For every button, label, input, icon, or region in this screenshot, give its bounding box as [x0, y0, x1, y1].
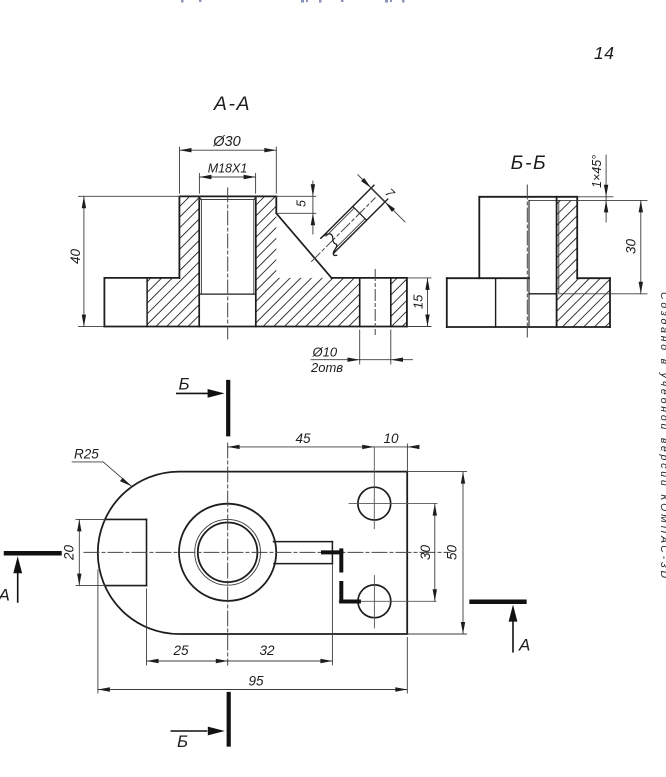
- hatch right wall + base to hole: [256, 196, 360, 326]
- svg-text:95: 95: [248, 674, 264, 689]
- small hole wall left: [359, 278, 361, 327]
- top hole horizontal centerline: [349, 503, 437, 505]
- dimension 1x45: [577, 155, 613, 222]
- dimension 40: [68, 196, 179, 326]
- hatch left wall + base left of hole: [147, 196, 199, 326]
- thread hole circle: [198, 523, 258, 583]
- pin lower side line: [334, 199, 388, 253]
- thread end line: [529, 293, 557, 295]
- dimension 7 line: [358, 175, 405, 222]
- pin break squiggle: [319, 231, 344, 256]
- svg-text:Создано в учебной версии КОМПА: Создано в учебной версии КОМПАС-3D: [658, 292, 666, 581]
- section arrow A left: [0, 553, 60, 604]
- hatch base right of hole: [391, 278, 407, 327]
- dimension 20 left: [62, 519, 107, 585]
- svg-text:25: 25: [172, 643, 189, 658]
- svg-text:50: 50: [445, 545, 460, 561]
- cutting plane A thick jog segment 3: [339, 583, 343, 602]
- thread end line: [199, 293, 256, 295]
- notch boundary line: [146, 278, 148, 327]
- svg-text:5: 5: [295, 200, 309, 207]
- svg-text:Ø10: Ø10: [312, 344, 338, 359]
- svg-text:30: 30: [624, 239, 639, 255]
- boss outer circle: [179, 504, 276, 601]
- hatch boss wall strip: [557, 200, 578, 327]
- svg-text:20: 20: [62, 545, 77, 562]
- section arrow B upper: [177, 374, 228, 434]
- center axis: [526, 185, 528, 337]
- svg-text:А-А: А-А: [213, 93, 251, 115]
- svg-text:2отв: 2отв: [310, 360, 343, 375]
- dimension 45 and 10: [228, 431, 420, 472]
- notch visible edge: [495, 278, 497, 327]
- dimension 30: [560, 200, 647, 293]
- hole right wall: [556, 197, 558, 327]
- base left edge: [446, 278, 448, 327]
- thread minor line right: [253, 200, 255, 295]
- thread minor line left: [200, 200, 202, 295]
- notch top edge: [105, 518, 147, 520]
- cutting plane A thick jog segment 4: [341, 600, 359, 604]
- chamfer line: [529, 199, 577, 201]
- svg-text:10: 10: [383, 431, 399, 446]
- base top right segment: [577, 277, 610, 279]
- boss vertical centerline: [227, 443, 229, 665]
- svg-text:М18Х1: М18Х1: [208, 162, 248, 176]
- svg-text:40: 40: [68, 249, 83, 265]
- small hole wall right: [390, 278, 392, 327]
- hatch base right part: [577, 278, 610, 327]
- pin thread line upper: [326, 208, 354, 236]
- base top left segment: [447, 277, 529, 279]
- svg-text:45: 45: [295, 431, 311, 446]
- cutting plane A thick jog segment 1: [323, 550, 341, 554]
- svg-text:32: 32: [259, 643, 275, 658]
- svg-text:Б: Б: [177, 732, 188, 751]
- top edge text fragments: [181, 0, 405, 3]
- small hole top: [358, 487, 391, 520]
- base left edge: [103, 278, 105, 327]
- base top right segment: [332, 277, 407, 279]
- center axis of threaded hole: [227, 188, 229, 339]
- base right edge: [406, 278, 408, 327]
- boss right edge: [576, 197, 578, 278]
- svg-text:R25: R25: [74, 447, 99, 462]
- dimension D30: [180, 134, 277, 193]
- plate outline with rounded left end R25: [98, 472, 407, 634]
- pin thread line lower: [336, 219, 365, 248]
- dimension 50 right: [407, 472, 466, 634]
- base bottom edge: [447, 326, 610, 328]
- base right edge: [609, 278, 611, 327]
- svg-text:1×45°: 1×45°: [590, 155, 604, 188]
- bottom hole horizontal centerline: [339, 600, 436, 602]
- svg-text:Б: Б: [179, 374, 190, 393]
- boss top edge: [179, 195, 276, 197]
- dimension 95: [98, 570, 407, 693]
- notch bottom edge: [105, 585, 147, 587]
- thread hole outer line left: [198, 196, 200, 326]
- pin end face: [371, 188, 385, 202]
- boss left edge: [478, 197, 480, 278]
- pin upper side line: [321, 185, 374, 238]
- svg-text:А: А: [518, 636, 530, 655]
- thread major thin circle: [195, 519, 261, 585]
- pin axis centerline: [312, 198, 376, 262]
- main horizontal centerline: [84, 551, 450, 553]
- dimension 30 right: [418, 504, 437, 602]
- slot bottom edge: [274, 563, 332, 565]
- boss left edge: [178, 196, 180, 278]
- small hole bottom: [358, 585, 391, 618]
- hole top chamfer line: [199, 199, 256, 201]
- dimension 15: [407, 278, 431, 327]
- dimension D10 2 holes: [310, 330, 413, 375]
- notch right edge: [146, 519, 148, 585]
- section arrow A right: [472, 602, 531, 655]
- svg-text:Б-Б: Б-Б: [511, 152, 548, 174]
- dimension 25 and 32: [147, 564, 333, 665]
- slot top edge: [274, 541, 333, 543]
- dimension 5: [276, 181, 316, 234]
- center axis of small hole: [374, 270, 376, 335]
- svg-text:14: 14: [594, 43, 614, 63]
- base top left segment: [104, 277, 179, 279]
- svg-text:Ø30: Ø30: [212, 134, 240, 150]
- svg-text:А: А: [0, 586, 10, 605]
- svg-text:Создано в учебной версии КОМПА: Создано в учебной версии КОМПАС-3D: [0, 402, 1, 597]
- thread hole outer line right: [255, 196, 257, 326]
- thread major thin line: [558, 200, 560, 293]
- svg-text:15: 15: [411, 294, 426, 309]
- top hole vertical centerline: [373, 447, 375, 529]
- cutting plane A thick jog segment 2: [339, 550, 343, 570]
- svg-text:30: 30: [418, 545, 433, 561]
- bottom hole vertical centerline: [373, 576, 375, 629]
- hole top corner chamfers: [198, 196, 257, 199]
- slot right edge: [331, 542, 333, 564]
- hole left line: [528, 200, 530, 327]
- R25 leader: [72, 447, 131, 487]
- pin cross line: [353, 206, 367, 220]
- boss right edge: [275, 196, 277, 213]
- chamfer slope from boss to base: [276, 213, 331, 278]
- base bottom edge: [104, 326, 407, 328]
- section arrow B lower: [171, 694, 228, 751]
- dimension M18X1: [199, 162, 255, 194]
- pin detail at 45deg: [291, 163, 416, 288]
- boss top edge: [479, 196, 577, 198]
